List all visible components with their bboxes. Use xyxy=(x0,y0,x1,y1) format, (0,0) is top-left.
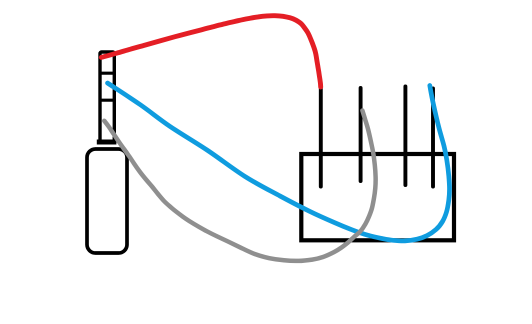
connector J1 plug body xyxy=(87,149,127,253)
wire gray (sleeve to pin 2) xyxy=(104,111,375,261)
pin 1 xyxy=(319,87,323,187)
connector J1 tip ring divider xyxy=(99,72,116,75)
pin 2 xyxy=(359,88,363,181)
connector J1 plug shaft xyxy=(100,52,114,142)
connector J1 ring sleeve divider xyxy=(99,99,116,102)
connector J1 shaft bottom cap xyxy=(97,140,117,145)
wire blue (ring to pin 4) xyxy=(108,83,450,241)
box B1 (terminal block) xyxy=(301,154,454,240)
wire red (tip to pin 1) xyxy=(101,16,320,87)
pin 3 xyxy=(403,87,407,186)
pin 4 xyxy=(431,89,435,187)
